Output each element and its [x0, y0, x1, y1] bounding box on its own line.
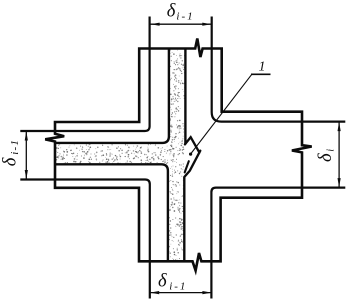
svg-text:δ: δ — [316, 153, 336, 162]
svg-text:1: 1 — [259, 60, 266, 75]
svg-text:δ: δ — [158, 272, 167, 292]
svg-text:i-1: i-1 — [176, 11, 194, 23]
svg-text:i: i — [325, 149, 336, 152]
svg-text:i-1: i-1 — [169, 280, 187, 292]
svg-text:δ: δ — [0, 157, 20, 166]
svg-text:i-1: i-1 — [9, 139, 21, 155]
svg-text:δ: δ — [167, 2, 176, 22]
